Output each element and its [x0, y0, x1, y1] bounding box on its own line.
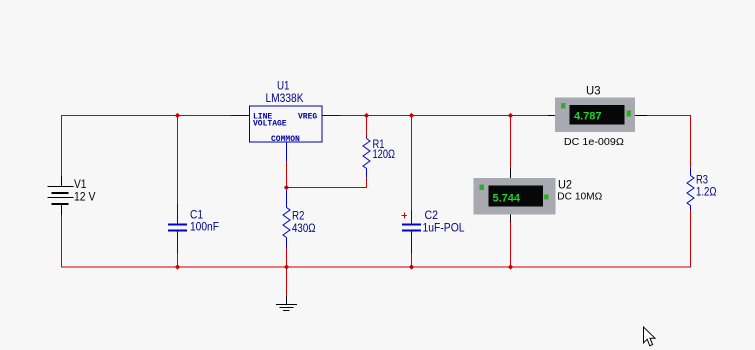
node junction C1 top [175, 113, 180, 118]
mouse cursor [644, 327, 656, 346]
svg-text:120Ω: 120Ω [373, 147, 396, 161]
ground [276, 296, 297, 311]
wire C1 top [177, 116, 179, 205]
svg-text:LM338K: LM338K [266, 91, 304, 105]
wire top rail from U3 to R3 corner [647, 115, 691, 117]
svg-text:VOLTAGE: VOLTAGE [253, 120, 287, 129]
svg-text:U2: U2 [558, 178, 572, 192]
svg-text:U3: U3 [586, 84, 601, 98]
wire U2 bottom pin black [510, 215, 512, 223]
battery V1 [48, 176, 74, 215]
svg-text:1uF-POL: 1uF-POL [423, 221, 465, 235]
op-amp U1 LM338K box [250, 106, 323, 144]
svg-text:COMMON: COMMON [271, 135, 300, 144]
node junction C2 top [409, 113, 414, 118]
svg-text:VREG: VREG [298, 113, 317, 122]
wire U3 left pin [548, 115, 555, 117]
svg-text:4.787: 4.787 [574, 111, 602, 123]
svg-text:DC 1e-009Ω: DC 1e-009Ω [564, 137, 625, 148]
wire R1 bottom lead [366, 177, 368, 188]
wire battery bottom [61, 215, 63, 267]
wire C2 top [411, 116, 413, 211]
wire U2 top pin black [510, 168, 512, 178]
wire U3 right pin [635, 115, 647, 117]
wire U1 common pin stub [286, 142, 288, 161]
multimeter U3 [555, 98, 635, 133]
node junction R2 bottom [284, 264, 289, 269]
node junction R1 top [364, 113, 369, 118]
wire U1 right pin stub [322, 115, 340, 117]
wire R2 bottom lead [286, 248, 288, 267]
wire top rail from U1 to U3 [340, 115, 548, 117]
capacitor C2 polarized [402, 210, 422, 254]
wire ground red segment [286, 267, 288, 296]
resistor R1 [363, 137, 370, 177]
capacitor C1 [168, 204, 187, 253]
svg-text:430Ω: 430Ω [292, 221, 316, 235]
wire battery top [61, 116, 63, 177]
wire U1 common red [286, 161, 288, 188]
wire common to R1 horizontal [287, 187, 368, 189]
wire U2 top [510, 116, 512, 169]
wire U1 left pin stub [231, 115, 250, 117]
resistor R3 [687, 168, 694, 210]
node junction U2 bottom [508, 264, 513, 269]
wire bottom rail [61, 266, 691, 268]
multimeter U2 [474, 178, 556, 215]
wire top rail from battery to U1 [61, 115, 231, 117]
node junction C1 bottom [175, 264, 180, 269]
wire R1 top lead [366, 116, 368, 138]
wire C1 bottom [177, 253, 179, 267]
wire R3 bottom lead [690, 210, 692, 268]
svg-text:5.744: 5.744 [493, 193, 521, 205]
plus sign [402, 215, 408, 217]
node junction U2 top [508, 113, 513, 118]
wire C2 bottom [411, 254, 413, 268]
wire R3 top lead [690, 116, 692, 169]
svg-text:100nF: 100nF [190, 220, 219, 234]
svg-text:DC 10MΩ: DC 10MΩ [557, 192, 603, 203]
node junction C2 bottom [409, 264, 414, 269]
svg-text:12 V: 12 V [74, 190, 96, 204]
svg-text:1.2Ω: 1.2Ω [696, 185, 717, 199]
resistor R2 [283, 190, 290, 248]
wire U2 bottom [510, 222, 512, 267]
node junction common [284, 185, 289, 190]
